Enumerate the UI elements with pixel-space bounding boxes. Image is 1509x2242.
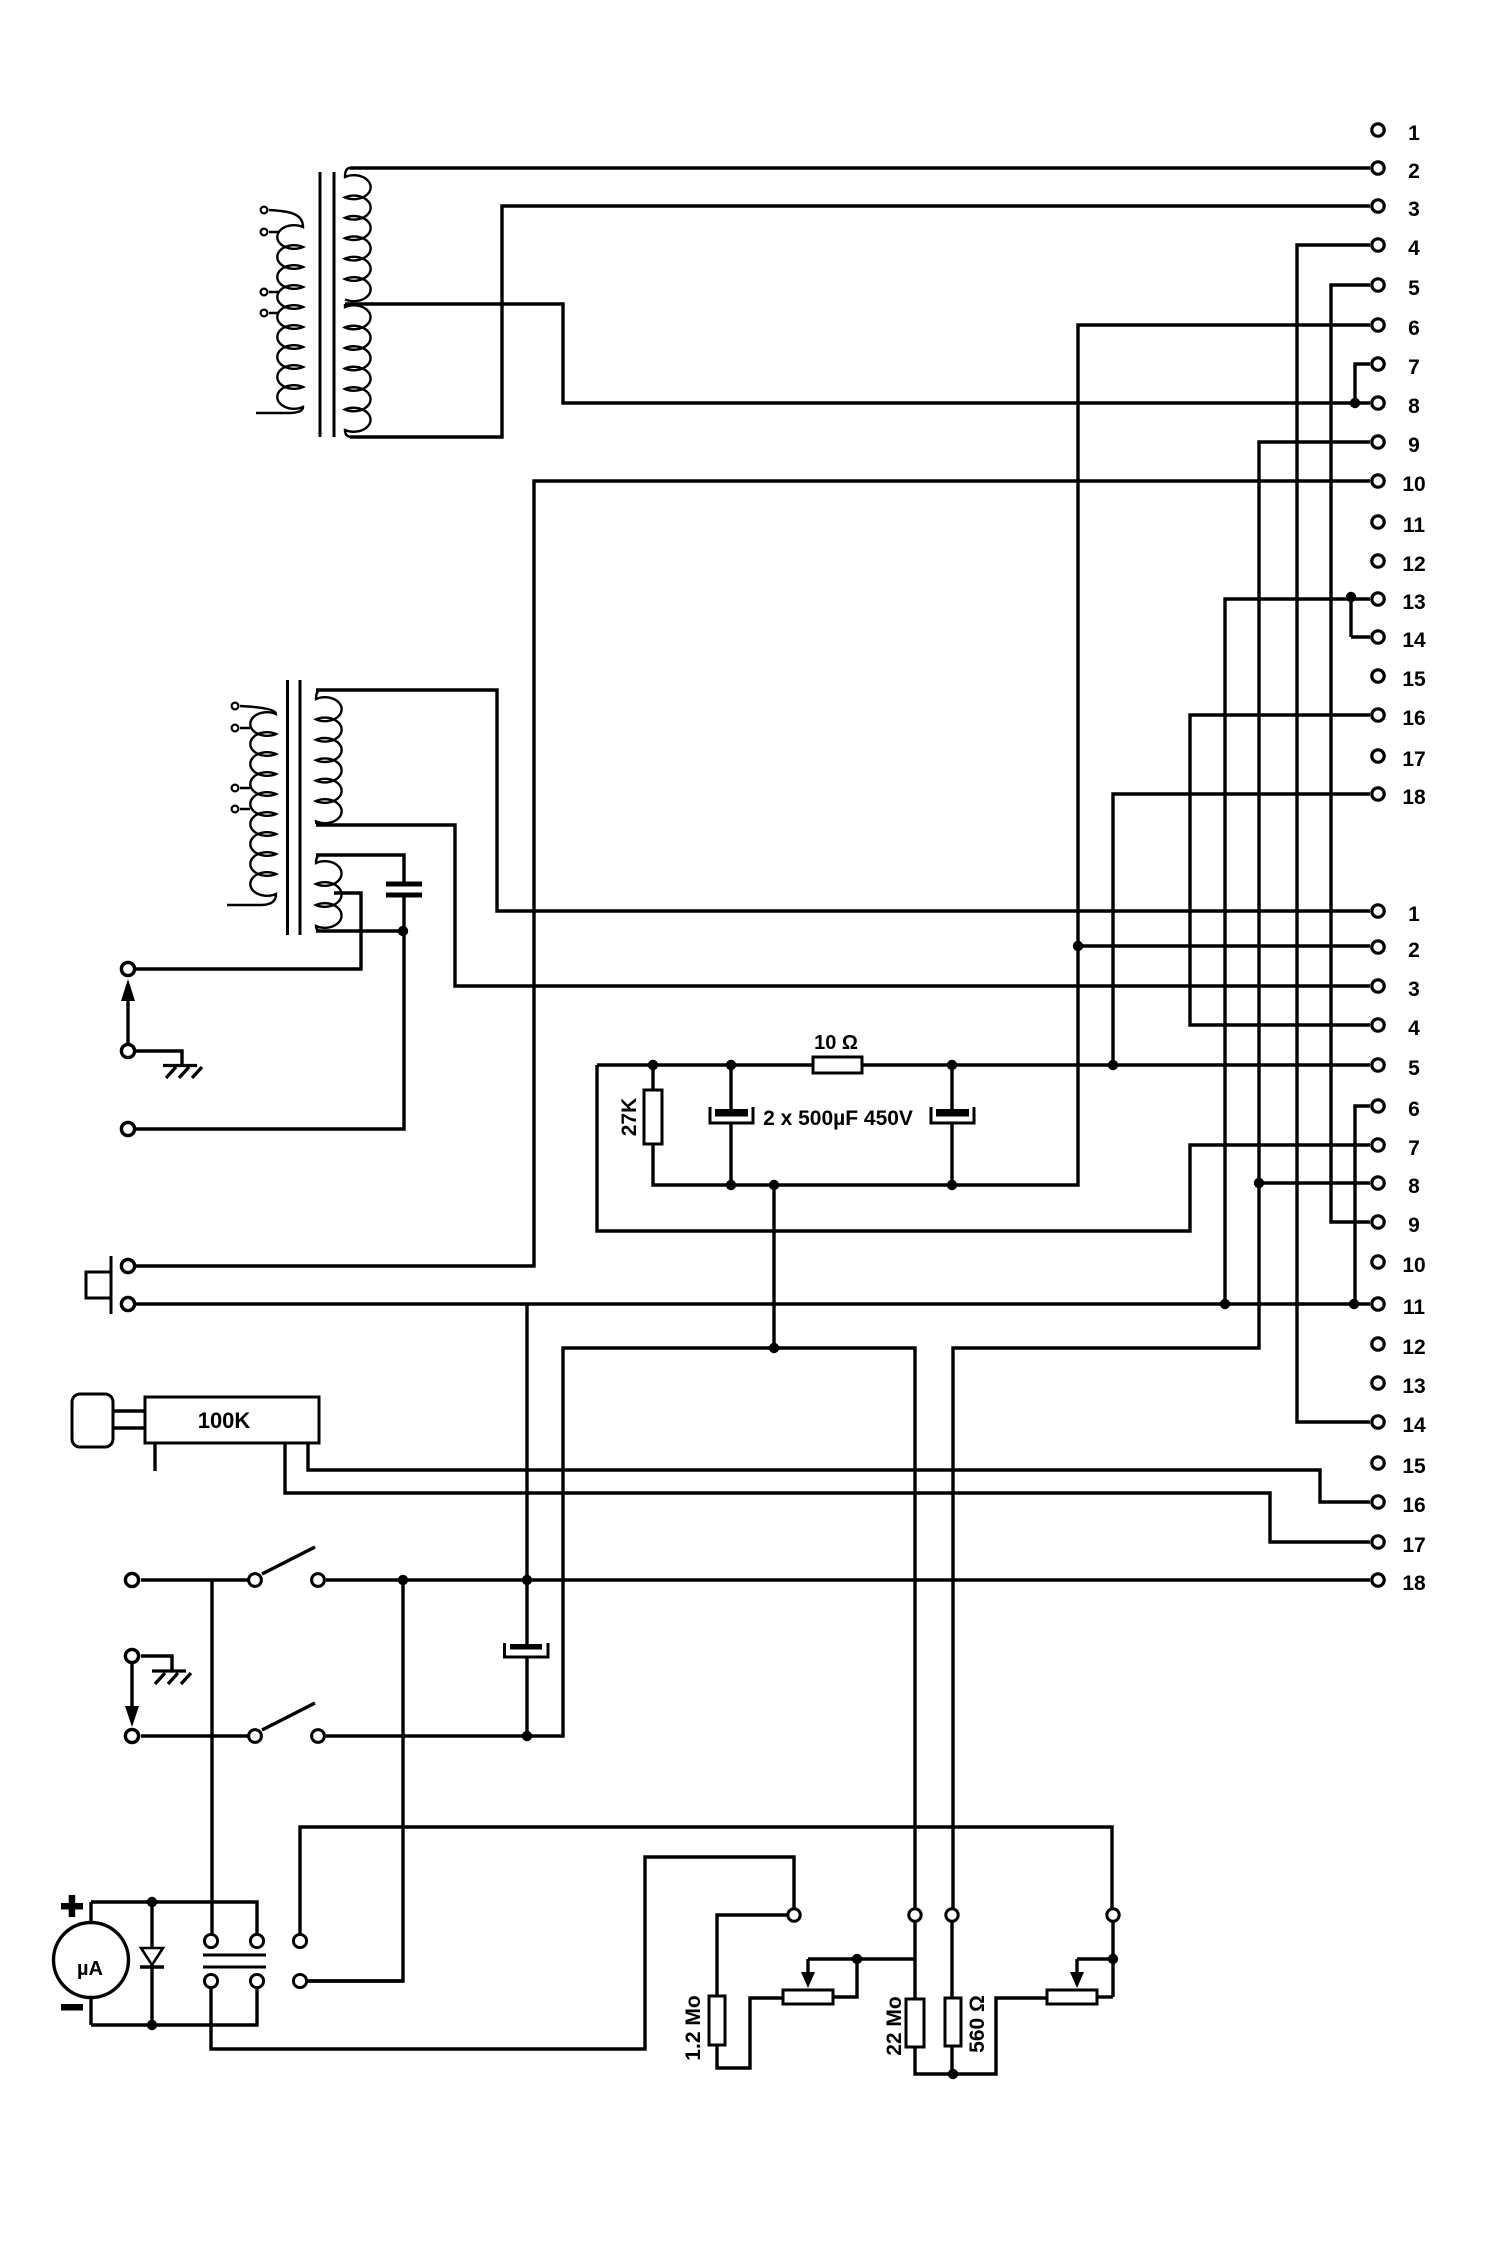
svg-text:5: 5 bbox=[1408, 1057, 1420, 1080]
svg-text:17: 17 bbox=[1402, 1534, 1425, 1557]
svg-text:12: 12 bbox=[1402, 1336, 1425, 1359]
svg-text:13: 13 bbox=[1402, 1375, 1425, 1398]
svg-text:8: 8 bbox=[1408, 1175, 1420, 1198]
svg-text:10: 10 bbox=[1402, 1254, 1425, 1277]
svg-text:3: 3 bbox=[1408, 198, 1420, 221]
svg-text:1: 1 bbox=[1408, 903, 1420, 926]
svg-text:12: 12 bbox=[1402, 553, 1425, 576]
svg-text:3: 3 bbox=[1408, 978, 1420, 1001]
svg-text:27K: 27K bbox=[618, 1098, 641, 1137]
svg-text:6: 6 bbox=[1408, 317, 1420, 340]
svg-text:4: 4 bbox=[1408, 1017, 1420, 1040]
svg-text:16: 16 bbox=[1402, 707, 1425, 730]
svg-text:1: 1 bbox=[1408, 122, 1420, 145]
svg-text:9: 9 bbox=[1408, 434, 1420, 457]
svg-text:4: 4 bbox=[1408, 237, 1420, 260]
svg-text:16: 16 bbox=[1402, 1494, 1425, 1517]
svg-text:7: 7 bbox=[1408, 1137, 1420, 1160]
svg-text:7: 7 bbox=[1408, 356, 1420, 379]
svg-text:22 Mo: 22 Mo bbox=[883, 1996, 906, 2056]
svg-text:10 Ω: 10 Ω bbox=[814, 1032, 858, 1054]
svg-text:14: 14 bbox=[1402, 1414, 1426, 1437]
svg-text:9: 9 bbox=[1408, 1214, 1420, 1237]
svg-text:1.2 Mo: 1.2 Mo bbox=[682, 1995, 705, 2060]
svg-text:2 x 500µF 450V: 2 x 500µF 450V bbox=[763, 1107, 913, 1130]
svg-text:18: 18 bbox=[1402, 786, 1426, 809]
svg-text:µA: µA bbox=[77, 1958, 103, 1980]
svg-text:5: 5 bbox=[1408, 277, 1420, 300]
svg-text:14: 14 bbox=[1402, 629, 1426, 652]
svg-text:6: 6 bbox=[1408, 1098, 1420, 1121]
svg-text:100K: 100K bbox=[198, 1408, 251, 1433]
svg-text:17: 17 bbox=[1402, 748, 1425, 771]
svg-text:2: 2 bbox=[1408, 160, 1420, 183]
svg-text:560 Ω: 560 Ω bbox=[966, 1995, 989, 2053]
svg-text:2: 2 bbox=[1408, 939, 1420, 962]
svg-text:15: 15 bbox=[1402, 1455, 1426, 1478]
svg-text:18: 18 bbox=[1402, 1572, 1426, 1595]
svg-text:15: 15 bbox=[1402, 668, 1426, 691]
svg-text:11: 11 bbox=[1403, 514, 1426, 537]
svg-text:8: 8 bbox=[1408, 395, 1420, 418]
svg-text:13: 13 bbox=[1402, 591, 1425, 614]
svg-text:11: 11 bbox=[1403, 1296, 1426, 1319]
svg-text:10: 10 bbox=[1402, 473, 1425, 496]
